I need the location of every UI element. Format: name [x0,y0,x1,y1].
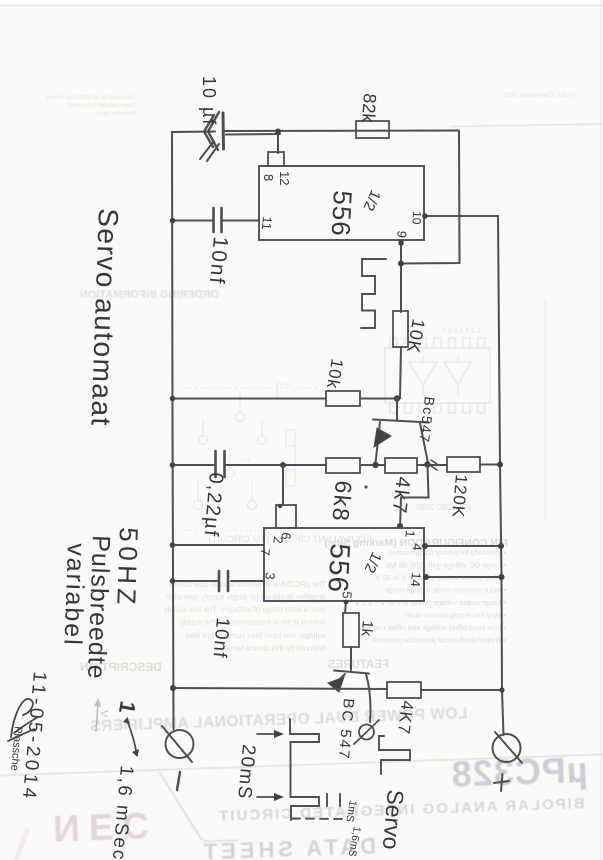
node junction left rail pin11 [170,218,176,224]
svg-text:• Internally frequency compens: • Internally frequency compensated [389,548,506,557]
label R5 4k7 [387,475,413,516]
svg-text:• Input common-mode voltage ra: • Input common-mode voltage range [385,586,506,595]
op-amp U2 box (1/2 556) [264,528,424,601]
node junction top rail [275,129,281,135]
transistor Q2 BC547 [328,671,371,723]
title 50HZ [111,527,144,610]
svg-text:7: 7 [257,548,273,557]
node collector junction B [424,461,430,467]
svg-text:50HZ: 50HZ [111,527,144,610]
capacitor C4 10nf [219,571,228,591]
node left rail pin3 [170,578,176,584]
label C4 10nf [208,617,232,660]
svg-text:Servo: Servo [378,789,409,851]
svg-text:© NEC Corporation 1993: © NEC Corporation 1993 [503,91,576,99]
pin label 4 [409,543,425,552]
label U2 1/2 [361,549,385,575]
wire bottom row [172,688,502,690]
wire pin 4 to right rail [424,545,501,547]
arrow marker 1 [257,730,284,738]
wire pin 3 row [172,580,264,582]
signature swoosh [8,699,38,741]
svg-text:12: 12 [277,171,292,185]
pin label 2 [270,536,286,545]
annotation range arrow [123,717,139,757]
annotation 1 [114,699,141,715]
svg-text:5: 5 [339,591,355,600]
svg-text:Date Published July 1993 P: Date Published July 1993 P [67,103,135,109]
arrow marker 2 [257,793,284,801]
label plus [494,774,509,791]
svg-text:10nf: 10nf [205,236,232,287]
svg-text:1: 1 [402,530,418,539]
node left rail bottom row [170,685,176,691]
label U1 1/2 [360,187,384,213]
annotation 1,6 mSec [108,765,137,860]
label R3 10k [323,357,347,390]
node pin5 [344,600,349,605]
wire 4k7 to 120K [417,464,447,466]
label U1 556 [326,190,358,238]
svg-text:1k: 1k [358,620,376,638]
date 11-05-2014 [18,671,50,803]
resistor R1 82k [356,121,389,138]
wire right rail [498,216,504,735]
wire pin 5 down [345,601,346,613]
svg-text:1 2 3 4 5 6 7: 1 2 3 4 5 6 7 [442,328,481,335]
node pin9 [398,240,404,266]
label R2 10K [403,317,429,355]
node pin10 [422,213,428,219]
svg-text:10 µf: 10 µf [199,76,219,126]
wire node B to pin 1 [400,465,429,529]
wire pin12/8 drop [277,131,279,153]
svg-text:3: 3 [262,572,278,581]
wire 10k row from left rail [172,398,326,400]
paper stripe smudge [16,828,28,860]
waveform servo pulse [379,736,410,774]
show-through features list (mirrored) [355,548,506,645]
label minus [177,772,180,790]
wire pin 14 to right rail [424,576,502,578]
svg-text:14: 14 [408,572,424,588]
pin label 6 [278,532,294,541]
label R6 120K [448,474,471,519]
node junction drop [280,462,286,468]
node base junction Q1 [394,395,400,401]
title Servo automaat [85,208,124,428]
show-through description paragraph (mirrored) [164,580,326,653]
svg-text:• Very low supply current drai: • Very low supply current drain [405,611,506,620]
pin label 10 [410,211,424,225]
label R4 6k8 [327,480,357,524]
transistor Q1 BC547 [373,398,429,463]
label 1mS [343,799,359,822]
svg-text:voltage, low input bias curren: voltage, low input bias currents are als… [185,631,326,640]
node right rail mid row [497,462,503,468]
show-through package diagram (mirrored) [385,338,490,413]
wire R3 to base node [360,398,397,400]
svg-text:A + V: A + V [275,382,290,388]
resistor R2 10K vertical [393,311,408,347]
svg-text:Document No. IC-2359 (2nd edit: Document No. IC-2359 (2nd edition) [46,95,135,101]
svg-text:6k8: 6k8 [327,480,357,524]
svg-text:82k: 82k [358,93,380,124]
title Pulsbreedte [82,535,115,680]
pin label 9 [394,229,410,239]
svg-text:ИEC: ИEC [53,805,159,850]
wire drop to pins 2/6 [282,465,284,505]
pen tick [431,460,437,470]
svg-text:100: 100 [239,458,250,464]
pin label 5 [339,591,355,600]
node left rail pin7 [170,542,176,548]
wire right top vertical to node 9 [401,131,460,264]
connector phi output [354,720,379,744]
resistor R7 1k [343,613,359,647]
pin label 7 [257,548,273,557]
connector box pins 2/6 [276,504,296,528]
show-through mid headings (mirrored) [208,534,372,545]
label R7 1k [358,620,376,638]
svg-text:556: 556 [326,190,358,238]
show-through bottom cover block (mirrored, slightly tilted) [0,700,603,860]
svg-text:featured by this device family: featured by this device family. [221,644,326,653]
svg-text:8: 8 [261,174,276,181]
wire pin 9 stub [400,240,402,312]
svg-text:• Large DC voltage gain: 100 d: • Large DC voltage gain: 100 dB typ. [385,561,506,570]
show-through equivalent-circuit marks [180,388,318,530]
node pin1 junction [397,523,403,529]
pin label 14 [408,572,424,588]
wire pin 7 row [172,544,264,546]
capacitor C3 0,22µf [216,451,225,477]
label U2 556 [322,543,356,594]
label Q2 BC 547 [335,698,357,761]
label R1 82k [358,93,380,124]
node emitter junction A [372,462,378,468]
wire pin 10 to right rail [424,215,498,217]
pin label 1 [402,530,418,539]
terminal minus [162,726,194,762]
capacitor C1 10µf [200,112,224,161]
svg-text:current drain is independent o: current drain is independent of the supp… [179,618,326,627]
label C2 10nf [205,236,232,287]
resistor R4 6k8 [326,458,360,473]
wire R2 to base node [397,347,401,398]
squarewave symbol [361,259,386,328]
label 1,6mS [346,825,363,857]
svg-text:10nf: 10nf [208,617,232,660]
wire 1k to Q2 base [350,647,352,670]
op-amp U1 box (1/2 556) [259,166,424,240]
svg-text:2: 2 [270,536,286,545]
wire left rail [172,132,174,729]
svg-text:over a wide range of voltages.: over a wide range of voltages. The low s… [164,605,326,614]
pin label 12 [277,171,292,185]
svg-text:10: 10 [410,211,424,225]
label R8 4K7 [394,700,417,737]
wire top rail [172,131,459,135]
connector box pins 12/8 [268,152,284,166]
pin label 3 [262,572,278,581]
svg-text:Printed in Japan: Printed in Japan [95,111,135,117]
node left rail 10k row [170,396,176,402]
svg-text:FEATURES: FEATURES [328,659,389,671]
svg-text:• Large output voltage swing:: • Large output voltage swing: 0 V to V −… [355,598,506,607]
capacitor C2 10nf [214,208,222,232]
svg-text:120K: 120K [448,474,471,519]
resistor R8 4K7 [387,682,421,698]
resistor R5 4k7 [385,458,417,473]
label C3 0,22µf [199,472,227,539]
show-through printed text (mirrored datasheet on reverse of the paper) [46,91,603,301]
wire mid row from left rail [172,464,326,466]
ink dot [364,485,367,488]
node pin14 [423,574,505,580]
resistor R6 120K [447,457,480,472]
label Servo [378,789,409,851]
signature name [8,726,24,772]
pin label 8 [261,174,276,181]
pencil vcc arrow [94,698,101,731]
svg-text:• Low input offset voltage and: • Low input offset voltage and offset cu… [361,623,506,632]
node right rail bottom row [499,687,504,692]
label 20mS [233,744,259,801]
svg-text:V: V [97,710,109,718]
svg-text:• Output short-circuit protect: • Output short-circuit protection provid… [372,636,506,645]
node pin4 [422,543,504,549]
wire pin 11 row [172,220,259,222]
terminal plus [493,732,523,763]
node left rail mid row [170,462,176,468]
label C1 10µf [199,76,219,126]
waveform 20mS pulse train [290,719,345,820]
label Q1 Bc547 [416,396,438,445]
pin label 11 [259,216,275,231]
wire 120K to right rail [480,464,500,466]
wire 6k8 to 4k7 [360,464,385,466]
svg-text:556: 556 [322,543,356,594]
resistor R3 10k horizontal [326,391,360,406]
svg-text:11: 11 [259,216,275,231]
title variabel [58,543,90,647]
svg-text:variabel: variabel [58,543,90,647]
